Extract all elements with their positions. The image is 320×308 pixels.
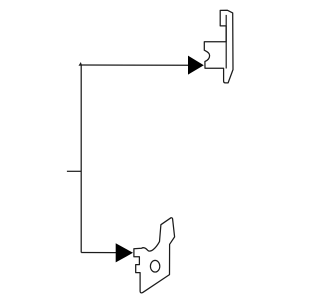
lower bracket part outline: [134, 218, 175, 293]
upper bracket inner bend line: [225, 15, 227, 69]
bottom arrowhead: [116, 243, 133, 262]
vertical leader line: [80, 65, 82, 253]
upper bracket part outline: [204, 10, 233, 83]
lower bracket hole: [150, 260, 159, 272]
corner junction spike: [79, 62, 83, 66]
bottom horizontal leader line: [81, 252, 116, 254]
top arrowhead: [188, 56, 204, 75]
tick mark on vertical line: [67, 170, 81, 172]
top horizontal leader line: [81, 64, 188, 66]
